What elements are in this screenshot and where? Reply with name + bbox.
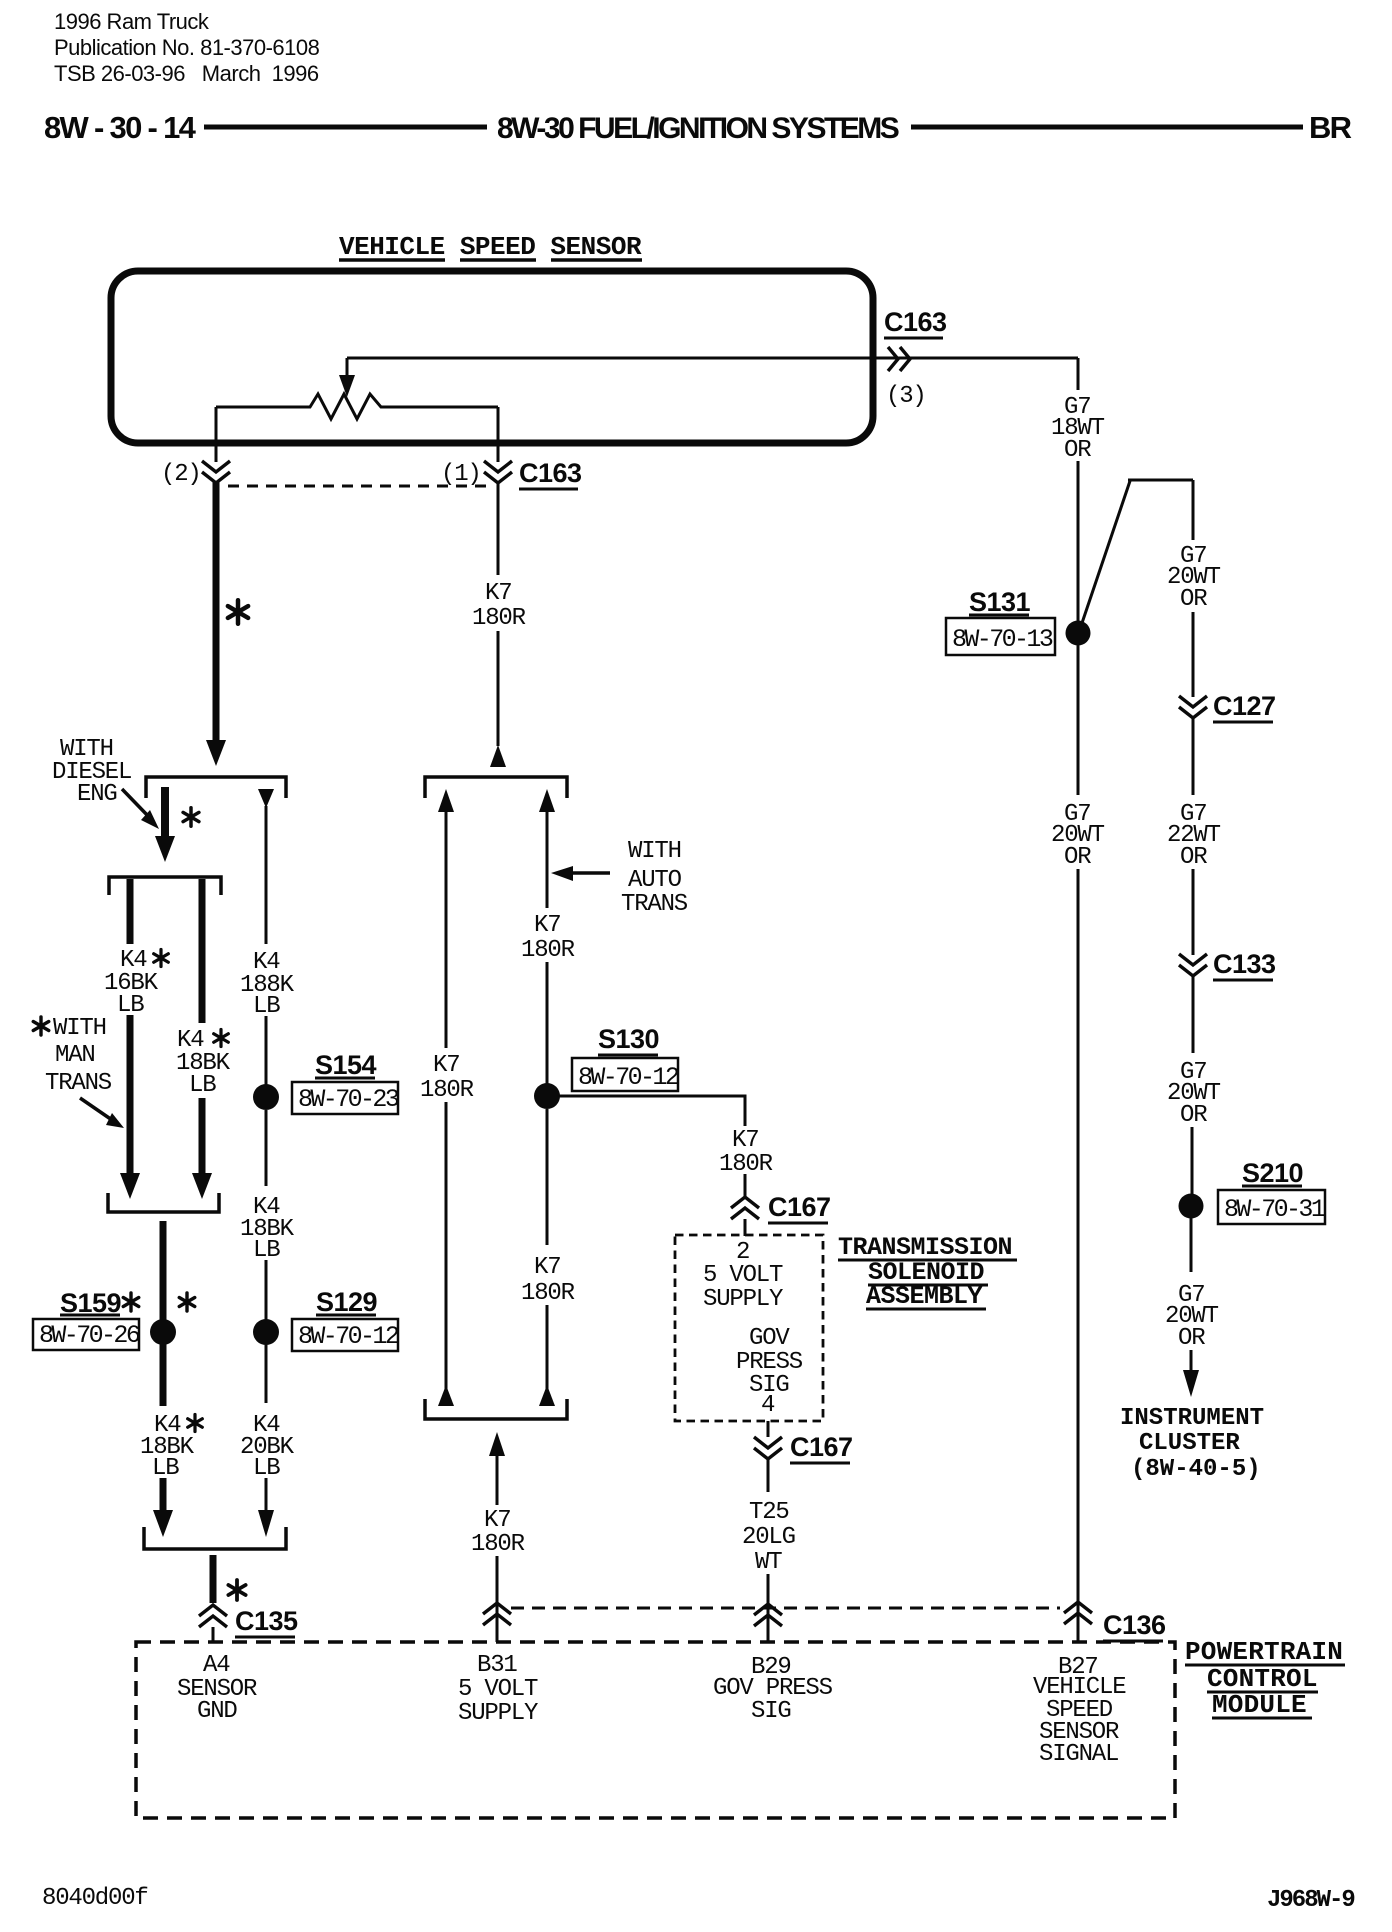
svg-text:180R: 180R xyxy=(719,1151,773,1178)
wire K4 18BK LB (S154 to S129) xyxy=(265,1110,268,1186)
svg-text:SUPPLY: SUPPLY xyxy=(703,1286,783,1313)
connector C163 pin (1) xyxy=(484,461,512,483)
svg-text:C133: C133 xyxy=(1213,949,1276,979)
svg-text:OR: OR xyxy=(1180,844,1207,871)
svg-text:LB: LB xyxy=(253,1237,280,1264)
svg-text:OR: OR xyxy=(1064,844,1091,871)
footer text xyxy=(42,1885,1354,1914)
svg-text:8040d00f: 8040d00f xyxy=(42,1885,148,1912)
svg-text:OR: OR xyxy=(1178,1325,1205,1352)
connector C163 pin (3) xyxy=(888,347,910,371)
wire: VSS pin 2 lead xyxy=(215,407,218,462)
svg-text:SUPPLY: SUPPLY xyxy=(458,1700,538,1727)
wire: thick stub in bracket xyxy=(161,787,169,838)
wire G7 18WT OR (C163-3 down) xyxy=(1077,358,1080,390)
svg-text:8W-70-31: 8W-70-31 xyxy=(1224,1195,1325,1224)
svg-text:8W-70-12: 8W-70-12 xyxy=(578,1063,679,1092)
svg-text:TSB 26-03-96 March 1996: TSB 26-03-96 March 1996 xyxy=(54,61,319,86)
svg-text:WITH: WITH xyxy=(628,838,681,865)
connector C127 xyxy=(1179,696,1207,718)
svg-text:S131: S131 xyxy=(969,587,1031,617)
svg-text:(1): (1) xyxy=(441,461,481,488)
wire G7 20WT OR to instrument cluster xyxy=(1190,1218,1193,1272)
label WITH DIESEL ENG xyxy=(52,736,131,808)
connector C167 bottom xyxy=(754,1437,782,1459)
wire: S131 to PCM B27 xyxy=(1077,645,1080,795)
svg-text:180R: 180R xyxy=(471,1531,525,1558)
svg-text:MAN: MAN xyxy=(55,1042,95,1069)
svg-text:OR: OR xyxy=(1180,586,1207,613)
splice S131 xyxy=(1066,621,1091,646)
svg-text:BR: BR xyxy=(1309,110,1352,145)
splice S129 xyxy=(253,1319,279,1345)
wire: solenoid pin 4 to C167 bottom xyxy=(767,1421,770,1437)
svg-text:(8W-40-5): (8W-40-5) xyxy=(1131,1456,1261,1483)
connector C136 pin B29 xyxy=(754,1604,782,1626)
svg-text:ENG: ENG xyxy=(77,781,117,808)
splice S210 xyxy=(1179,1194,1204,1219)
svg-text:GND: GND xyxy=(197,1698,237,1725)
svg-text:T25: T25 xyxy=(749,1499,789,1526)
wire K7 180R left branch xyxy=(438,789,454,812)
asterisk at K4 18BK label xyxy=(214,1030,229,1047)
svg-text:LB: LB xyxy=(152,1455,179,1482)
svg-text:B31: B31 xyxy=(477,1652,517,1679)
wire K7 180R right branch xyxy=(539,789,555,812)
svg-text:SIG: SIG xyxy=(751,1698,791,1725)
svg-text:5 VOLT: 5 VOLT xyxy=(703,1262,783,1289)
svg-text:AUTO: AUTO xyxy=(628,867,682,894)
svg-text:K7: K7 xyxy=(534,1254,560,1281)
svg-text:S210: S210 xyxy=(1242,1158,1303,1188)
wire K4 18BK LB (S159 down) xyxy=(160,1344,167,1406)
wire: branch horizontal to C127 drop xyxy=(1128,479,1193,482)
svg-text:WITH: WITH xyxy=(53,1015,106,1042)
wire: thick lead from C163 (2) xyxy=(213,482,220,742)
connector C167 top xyxy=(731,1197,759,1219)
pointer arrow (with diesel eng) xyxy=(122,789,150,818)
connector C163 dashed tie line xyxy=(228,485,487,488)
svg-text:8W-70-12: 8W-70-12 xyxy=(298,1322,399,1351)
svg-text:20LG: 20LG xyxy=(742,1524,795,1551)
svg-text:S154: S154 xyxy=(315,1050,377,1080)
svg-text:K7: K7 xyxy=(732,1127,758,1154)
bracket: diesel group top xyxy=(146,777,286,798)
wire below S130 xyxy=(546,1109,549,1245)
pin B31 5 VOLT SUPPLY xyxy=(458,1652,538,1727)
splice S154 xyxy=(253,1084,279,1110)
svg-text:180R: 180R xyxy=(472,605,526,632)
svg-text:LB: LB xyxy=(189,1072,216,1099)
svg-text:A4: A4 xyxy=(203,1652,230,1679)
svg-text:C135: C135 xyxy=(235,1606,298,1636)
svg-text:J968W-9: J968W-9 xyxy=(1267,1887,1354,1914)
svg-text:C163: C163 xyxy=(519,458,582,488)
wire: VSS pin 1 lead xyxy=(497,407,500,462)
asterisk by C163(2) wire xyxy=(228,600,248,624)
svg-text:C167: C167 xyxy=(768,1192,831,1222)
page header text xyxy=(44,9,1352,145)
wire to splice S131 xyxy=(1077,461,1080,622)
splice S130 xyxy=(534,1083,560,1109)
svg-text:C136: C136 xyxy=(1103,1610,1166,1640)
wire G7 20WT OR (S131 to instrument cluster branch) xyxy=(1192,480,1195,540)
svg-text:180R: 180R xyxy=(521,937,575,964)
svg-text:POWERTRAIN: POWERTRAIN xyxy=(1185,1637,1343,1667)
wire: S130 branch to C167 xyxy=(547,1096,745,1126)
svg-text:8W-70-23: 8W-70-23 xyxy=(298,1085,399,1114)
svg-text:180R: 180R xyxy=(420,1077,474,1104)
svg-text:5 VOLT: 5 VOLT xyxy=(458,1676,538,1703)
svg-text:C163: C163 xyxy=(884,307,947,337)
svg-text:OR: OR xyxy=(1180,1102,1207,1129)
svg-text:1996 Ram Truck: 1996 Ram Truck xyxy=(54,9,210,34)
wire G7 20WT OR to S210 xyxy=(1192,976,1195,1053)
wire K4 20BK LB (S129 down) xyxy=(265,1344,268,1403)
wire K4 16BK LB xyxy=(127,879,134,944)
svg-text:K7: K7 xyxy=(534,912,560,939)
svg-text:K7: K7 xyxy=(484,1507,510,1534)
svg-text:(3): (3) xyxy=(886,383,926,410)
wire: thick to C135 xyxy=(210,1555,217,1603)
connector C163 pin (2) xyxy=(202,461,230,483)
svg-text:8W-30 FUEL/IGNITION SYSTEMS: 8W-30 FUEL/IGNITION SYSTEMS xyxy=(497,112,899,145)
pin A4 SENSOR GND xyxy=(177,1652,257,1725)
connector C136 pin B27 xyxy=(1064,1602,1092,1624)
bracket: man trans group xyxy=(109,877,221,895)
wire: VSS internal horizontal to pin 3 xyxy=(347,357,1078,360)
pin B29 GOV PRESS SIG xyxy=(713,1654,833,1725)
splice S159 xyxy=(150,1319,176,1345)
bracket: ground group bottom xyxy=(144,1527,286,1549)
svg-text:LB: LB xyxy=(253,1455,280,1482)
bracket: man trans bottom xyxy=(108,1193,219,1212)
transmission solenoid assembly box xyxy=(675,1235,823,1421)
svg-text:CLUSTER: CLUSTER xyxy=(1139,1430,1240,1457)
svg-text:MODULE: MODULE xyxy=(1212,1690,1307,1720)
svg-text:TRANS: TRANS xyxy=(45,1070,112,1097)
svg-text:INSTRUMENT: INSTRUMENT xyxy=(1120,1405,1264,1432)
wire K4 188K LB (to S154) xyxy=(258,789,274,808)
asterisk at K4 16BK label xyxy=(154,950,169,967)
asterisk in bracket xyxy=(183,808,199,826)
wire K7 180R to PCM B31 xyxy=(489,1432,505,1456)
svg-text:8W-70-13: 8W-70-13 xyxy=(952,625,1053,654)
wire T25 20LG WT xyxy=(767,1460,770,1492)
asterisk after S159 label xyxy=(123,1293,138,1311)
svg-text:4: 4 xyxy=(761,1392,775,1419)
header rule right xyxy=(911,125,1303,130)
bracket: auto trans bottom xyxy=(425,1399,567,1419)
svg-text:(2): (2) xyxy=(161,461,201,488)
connector C135 xyxy=(199,1605,227,1627)
label C163 at pins 1/2 xyxy=(519,458,582,488)
svg-text:K7: K7 xyxy=(433,1052,459,1079)
asterisk by C135 wire xyxy=(228,1580,245,1600)
wire K7 180R from C163 (1) xyxy=(497,482,500,575)
label WITH AUTO TRANS xyxy=(621,838,688,918)
label * WITH MAN TRANS xyxy=(33,1017,48,1035)
svg-text:SIGNAL: SIGNAL xyxy=(1039,1741,1118,1768)
resistor (VSS sender element) xyxy=(216,394,498,419)
svg-text:8W - 30 - 14: 8W - 30 - 14 xyxy=(44,110,197,145)
svg-text:WT: WT xyxy=(755,1549,782,1576)
wire K4 18BK LB (second) xyxy=(199,879,206,1023)
asterisk at K4 18BK label (S159 leg) xyxy=(188,1415,203,1432)
node: instrument cluster xyxy=(1120,1405,1264,1483)
label POWERTRAIN CONTROL MODULE xyxy=(1185,1637,1343,1720)
svg-text:OR: OR xyxy=(1064,437,1091,464)
svg-text:VEHICLE SPEED SENSOR: VEHICLE SPEED SENSOR xyxy=(339,232,642,262)
svg-text:8W-70-26: 8W-70-26 xyxy=(39,1321,140,1350)
wire G7 22WT OR xyxy=(1192,718,1195,795)
vehicle speed sensor box xyxy=(111,271,873,443)
svg-text:GOV: GOV xyxy=(749,1325,790,1352)
wire: VSS wiper arrow xyxy=(346,358,349,377)
powertrain control module box xyxy=(136,1642,1175,1818)
pointer arrow (with man trans) xyxy=(80,1098,112,1120)
pointer arrow (with auto trans) xyxy=(570,871,610,875)
vehicle speed sensor title xyxy=(339,232,642,262)
svg-text:LB: LB xyxy=(117,992,144,1019)
svg-text:TRANS: TRANS xyxy=(621,891,688,918)
value label G7 18WT OR xyxy=(1051,394,1105,464)
connector C133 xyxy=(1179,954,1207,976)
label TRANSMISSION SOLENOID ASSEMBLY xyxy=(838,1233,1012,1311)
connector C136 dashed tie line xyxy=(511,1607,1060,1610)
svg-text:S129: S129 xyxy=(316,1287,378,1317)
wire: S131 branch diagonal xyxy=(1082,481,1130,623)
svg-text:C127: C127 xyxy=(1213,691,1276,721)
svg-text:C167: C167 xyxy=(790,1432,853,1462)
svg-text:180R: 180R xyxy=(521,1280,575,1307)
connector C136 pin B31 xyxy=(483,1603,511,1625)
bracket: auto trans top xyxy=(425,777,567,798)
wire: thick to S159 xyxy=(160,1221,167,1321)
header rule left xyxy=(204,125,487,130)
svg-text:S130: S130 xyxy=(598,1024,659,1054)
svg-text:K7: K7 xyxy=(485,580,511,607)
pin B27 VEHICLE SPEED SENSOR SIGNAL xyxy=(1033,1654,1126,1768)
svg-text:LB: LB xyxy=(253,993,280,1020)
svg-text:Publication No. 81-370-6108: Publication No. 81-370-6108 xyxy=(54,35,320,60)
asterisk by S159 wire xyxy=(179,1293,194,1311)
